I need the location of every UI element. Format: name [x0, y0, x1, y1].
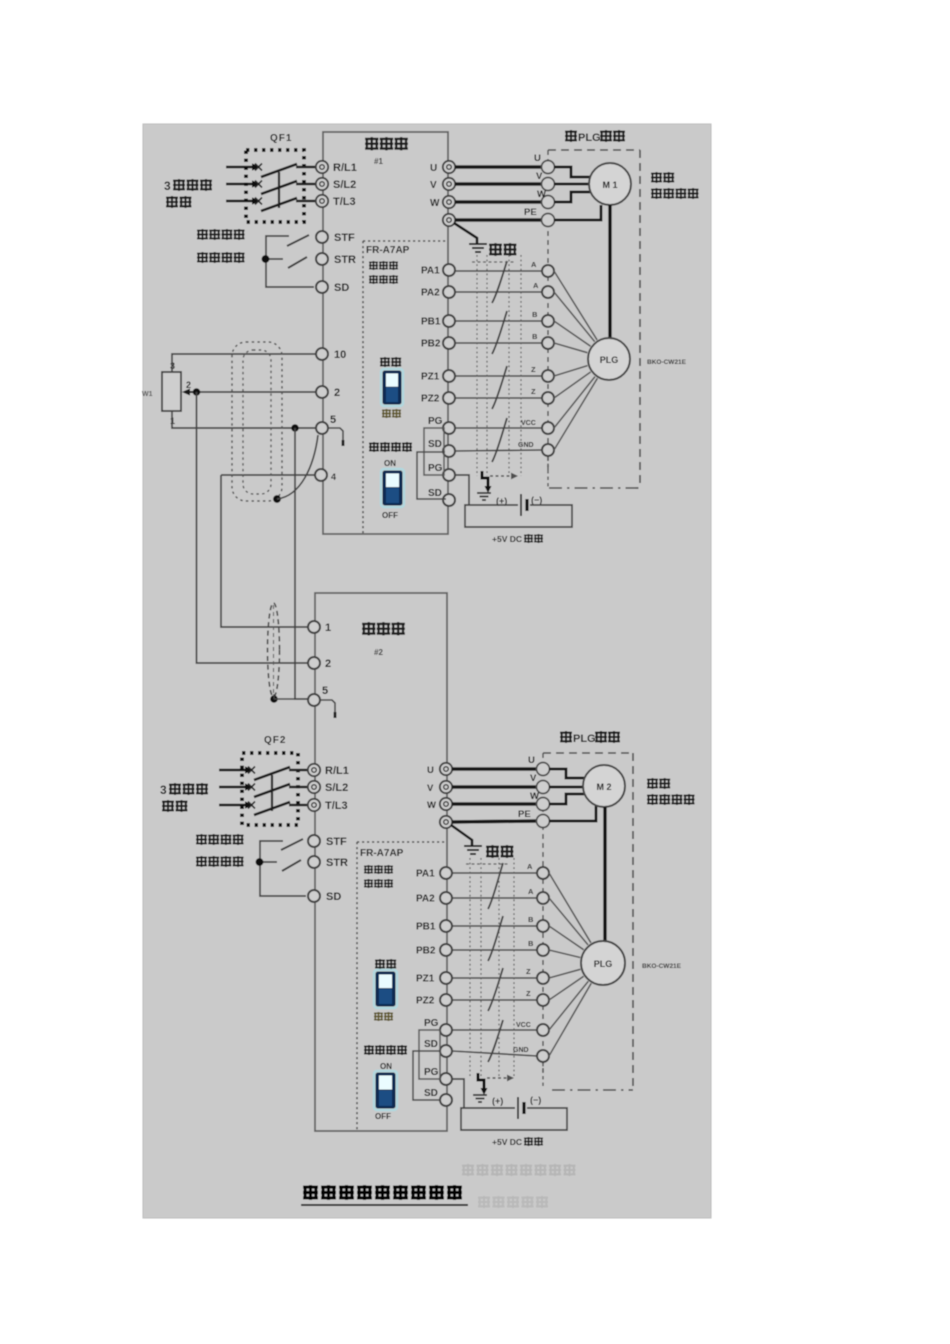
svg-text:PLG: PLG — [573, 733, 596, 745]
svg-text:FR-A7AP: FR-A7AP — [360, 848, 404, 859]
GND dashed drop (U2) — [542, 1063, 544, 1089]
card terminal PG y=475 (U1) — [428, 463, 455, 481]
QF1 phase 2 output stub — [296, 183, 316, 185]
svg-text:STF: STF — [334, 232, 355, 244]
label +5V DC电源 (U1) — [492, 534, 542, 544]
svg-text:PG: PG — [428, 416, 443, 427]
wire encoder 398 to PLG1 — [554, 372, 591, 398]
QF1 phase 3 breaker blade — [261, 198, 297, 211]
QF1 phase 2 input arrow — [226, 180, 260, 187]
wire encoder 873 to PLG2 — [549, 873, 591, 943]
svg-text:PZ2: PZ2 — [421, 394, 440, 405]
svg-text:M 2: M 2 — [596, 782, 611, 792]
svg-text:PB1: PB1 — [421, 317, 441, 328]
STF/STR/SD bracket wire (U2) — [260, 841, 306, 896]
thick wire U (U1) — [455, 165, 543, 169]
svg-text:PZ2: PZ2 — [416, 996, 435, 1007]
card terminal PB1 y=321 (U1) — [421, 315, 455, 328]
label 正转启动 (U2) — [197, 834, 243, 844]
encoder terminal GND y=450 (PLG1) — [518, 442, 554, 456]
svg-text:T/L3: T/L3 — [333, 196, 356, 208]
terminal 4 (U1) — [315, 469, 336, 482]
QF1 phase 1 breaker blade — [261, 164, 297, 177]
card terminal SD y=1100 (U2) — [424, 1088, 452, 1106]
QF2 phase 3 input arrow — [219, 801, 253, 808]
svg-text:2: 2 — [334, 387, 340, 399]
shield drain dot (upper capsule) — [273, 495, 281, 503]
svg-text:5: 5 — [322, 685, 328, 697]
terminal STR (U1) — [316, 253, 356, 266]
svg-text:R/L1: R/L1 — [325, 765, 349, 777]
QF2 phase 2 breaker blade — [254, 784, 290, 797]
svg-text:V: V — [530, 773, 537, 784]
DIP switch SW2 (U1) — [381, 469, 404, 507]
output terminal V (U2) — [427, 781, 452, 794]
label 上辊 (upper roll) — [648, 778, 670, 788]
svg-text:B: B — [528, 915, 534, 924]
svg-text:(+): (+) — [492, 1096, 503, 1106]
terminal 2 (U1) — [316, 386, 340, 399]
svg-text:PLG: PLG — [594, 959, 613, 969]
twisted pair slash y=321-343 (U1) — [492, 311, 507, 354]
thick wire PE (U2) — [452, 821, 537, 822]
svg-text:PG: PG — [424, 1067, 439, 1078]
svg-text:#2: #2 — [374, 648, 383, 657]
motor-encoder shaft link (U2) — [603, 807, 606, 941]
label OFF (U2) — [375, 1112, 391, 1121]
potentiometer RP1 pin labels — [142, 361, 191, 426]
label 终端电阻 (U2) — [365, 1045, 407, 1054]
shield drain dot (link capsule) — [270, 694, 295, 703]
svg-text:V: V — [430, 180, 437, 191]
GND dashed drop (U1) — [547, 457, 549, 487]
junction dot on terminal-5 wire — [291, 424, 299, 432]
potentiometer RP1 body — [162, 372, 181, 411]
label 接口卡 (interface card) U1 — [370, 275, 398, 283]
scanned diagram gray panel — [143, 124, 711, 1218]
label 互补 (below SW1) U2 — [375, 1012, 393, 1020]
svg-text:Z: Z — [531, 365, 536, 374]
card terminal SD y=451 (U1) — [428, 439, 455, 457]
battery minus label (U1) — [531, 495, 542, 505]
motor terminal PE (M1) — [524, 207, 555, 227]
svg-text:SD: SD — [424, 1039, 438, 1050]
svg-text:QF1: QF1 — [270, 133, 292, 144]
QF2 phase 2 contact cross — [248, 784, 255, 791]
motor stub V (M2) — [549, 786, 584, 789]
label 转矩控制 (torque control) — [648, 794, 694, 804]
motor terminal U (M1) — [534, 153, 555, 174]
3-phase source label 3相交流 (U2) — [160, 783, 207, 797]
wire row y=1000 (U2) — [452, 999, 537, 1001]
output terminal PE (U2) — [440, 816, 452, 828]
svg-text:GND: GND — [513, 1047, 529, 1054]
label OFF (U1) — [382, 511, 398, 520]
svg-text:PZ1: PZ1 — [421, 372, 440, 383]
wire encoder 271 to PLG1 — [554, 271, 597, 340]
battery minus label (U2) — [530, 1095, 541, 1105]
QF2 phase 2 output stub — [289, 786, 308, 788]
QF1 phase 2 breaker blade — [261, 181, 297, 194]
FR-A7AP label (U1) — [366, 245, 410, 256]
encoder terminal A y=292 (PLG1) — [533, 281, 554, 298]
encoder terminal VCC y=428 (PLG1) — [521, 420, 554, 434]
svg-text:T/L3: T/L3 — [325, 800, 348, 812]
PLG2 circle — [581, 941, 625, 985]
svg-text:QF2: QF2 — [264, 735, 286, 746]
ground symbol (U2) — [464, 846, 482, 854]
svg-text:S/L2: S/L2 — [325, 782, 348, 794]
svg-text:STR: STR — [334, 254, 356, 266]
svg-text:Z: Z — [526, 989, 531, 998]
PLG motor dashed box top (U1) — [548, 149, 640, 151]
svg-text:+5V DC: +5V DC — [492, 534, 522, 544]
card terminal PB2 y=343 (U1) — [421, 337, 455, 350]
svg-text:PA2: PA2 — [416, 894, 435, 905]
svg-text:PB2: PB2 — [421, 339, 441, 350]
encoder terminal Z y=398 (PLG1) — [531, 387, 554, 404]
terminal 5 (U2) — [308, 685, 328, 706]
card terminal PA1 y=270 (U1) — [421, 264, 455, 277]
label 带PLG电机 (U1) — [566, 130, 624, 144]
encoder terminal Z y=978 (PLG2) — [526, 967, 549, 984]
terminal STR (U2) — [308, 856, 348, 869]
wire row y=321 (U1) — [455, 320, 542, 322]
wire terminal5 junction down to U2 terminal 5 — [295, 428, 309, 699]
wire row y=451 (U1) — [455, 450, 542, 451]
wire encoder 321 to PLG1 — [554, 321, 591, 346]
label 编码器 (U2) — [365, 865, 393, 873]
QF1 phase 1 output stub — [296, 166, 316, 168]
FR-A7AP card dashed border (U2) — [357, 842, 446, 1130]
wire row y=898 (U2) — [452, 897, 537, 899]
svg-text:S/L2: S/L2 — [333, 179, 356, 191]
breaker QF1 dotted enclosure — [246, 150, 304, 222]
svg-text:10: 10 — [334, 349, 346, 361]
PLG motor dash-dot bottom (U2) — [552, 1089, 633, 1091]
DIP switch SW1 (U2) — [374, 970, 397, 1008]
svg-text:STR: STR — [326, 857, 348, 869]
wire PG to supply (U1) — [455, 475, 469, 505]
wire row y=873 (U2) — [452, 872, 537, 874]
card terminal PZ2 y=398 (U1) — [421, 392, 455, 405]
card terminal PZ1 y=376 (U1) — [421, 370, 455, 383]
card terminal SD y=1051 (U2) — [424, 1039, 452, 1057]
wire encoder 376 to PLG1 — [554, 366, 588, 376]
svg-text:4: 4 — [331, 472, 336, 482]
shield drain arrow (U2) — [478, 1073, 488, 1095]
wire row y=343 (U1) — [455, 342, 542, 344]
terminal S/L2 (U2) — [308, 781, 348, 794]
encoder terminal B y=950 (PLG2) — [528, 939, 549, 956]
battery plus label (U2) — [492, 1096, 503, 1106]
twisted pair slash y=978-1000 (U2) — [488, 968, 503, 1011]
svg-text:R/L1: R/L1 — [333, 162, 357, 174]
output terminal circle y=184 (U1) — [430, 178, 455, 191]
svg-text:PB1: PB1 — [416, 922, 436, 933]
label 终端电阻 (terminating resistor) U1 — [370, 442, 412, 451]
motor stub V (M1) — [554, 183, 589, 186]
wire terminal 4 to left — [221, 474, 315, 476]
svg-text:W: W — [530, 791, 539, 802]
motor wire PE (M2) — [549, 806, 596, 821]
wire row y=978 (U2) — [452, 977, 537, 979]
motor terminal U (M2) — [528, 755, 550, 776]
encoder model text (U2) — [642, 963, 682, 970]
svg-text:B: B — [532, 310, 538, 319]
svg-text:W: W — [430, 198, 440, 209]
encoder terminal A y=898 (PLG2) — [528, 887, 549, 904]
shield capsule inner conductor dashes — [0, 0, 1, 1]
twisted pair slash y=1030-1051 (U2) — [488, 1020, 503, 1062]
motor stub U (M2) — [549, 769, 585, 778]
svg-text:SD: SD — [326, 891, 341, 903]
card terminal PG y=1079 (U2) — [424, 1067, 452, 1085]
thick wire W (U2) — [452, 802, 537, 806]
breaker QF1 label — [270, 133, 292, 144]
motor terminal W (M1) — [537, 189, 555, 209]
inverter U1 (变频器 #1) enclosure box — [323, 132, 448, 534]
motor wire PE (M1) — [554, 205, 601, 220]
contact blade STR — [288, 257, 307, 268]
twisted pair slash y=428-451 (U1) — [492, 418, 507, 462]
svg-text:ON: ON — [384, 459, 396, 468]
svg-text:PLG: PLG — [600, 355, 619, 365]
QF2 mechanical tie bar — [271, 775, 273, 811]
QF1 mechanical tie bar — [278, 172, 280, 208]
potentiometer wiper arrow — [182, 389, 196, 396]
label 速度控制 (speed control) — [652, 188, 698, 198]
contact blade STF — [287, 235, 309, 246]
wire row y=271 (U1) — [455, 270, 542, 272]
wire row y=926 (U2) — [452, 925, 537, 927]
output terminal circle y=202 (U1) — [430, 196, 455, 209]
twisted pair slash y=271-292 (U1) — [492, 261, 507, 303]
svg-text:PLG: PLG — [578, 132, 601, 144]
shield dotted columns (U2) — [466, 858, 514, 1078]
label 差动 (switch 1) U2 — [376, 959, 396, 968]
label 接地 (U1) — [490, 243, 516, 255]
thick wire V (U2) — [452, 785, 537, 789]
STF/STR/SD bracket wire — [266, 236, 314, 287]
terminal SD (U1) — [316, 281, 349, 294]
QF2 phase 1 contact cross — [248, 767, 255, 774]
motor terminal V (M1) — [536, 171, 555, 191]
shield drain arrow (U1) — [482, 471, 492, 493]
thick wire PE (U1) — [455, 218, 543, 222]
label ON (U1) — [384, 459, 396, 468]
DIP switch SW2 (U2) — [374, 1071, 397, 1110]
QF1 phase 1 input arrow — [226, 163, 260, 170]
wire pot wiper to terminal 2 — [196, 391, 316, 393]
battery plus label (U1) — [496, 496, 507, 506]
wire row y=1051 (U2) — [452, 1051, 537, 1056]
card terminal PB2 y=950 (U2) — [416, 944, 452, 957]
FR-A7AP label (U2) — [360, 848, 404, 859]
motor stub W (M1) — [554, 192, 590, 202]
PG jumper rectangle (U2) — [419, 1030, 440, 1079]
wire row y=376 (U1) — [455, 375, 542, 377]
svg-text:OFF: OFF — [375, 1112, 391, 1121]
svg-text:STF: STF — [326, 836, 347, 848]
inverter U1 subtitle #1 — [374, 157, 383, 166]
terminal STF (U2) — [308, 835, 347, 848]
QF1 phase 3 output stub — [296, 200, 316, 202]
battery cell (U2) — [518, 1097, 524, 1119]
terminal 5 hook tail — [328, 428, 343, 446]
3-phase source label 3相交流 — [164, 179, 211, 193]
wire row y=428 (U1) — [455, 427, 542, 429]
label 反转启动 (reverse run) — [198, 252, 244, 262]
svg-text:PA2: PA2 — [421, 288, 440, 299]
5V supply box (U1) — [465, 505, 572, 527]
svg-text:PA1: PA1 — [416, 869, 435, 880]
svg-text:A: A — [533, 281, 539, 290]
terminal R/L1 (U2) — [308, 764, 349, 777]
wire row y=1030 (U2) — [452, 1029, 537, 1031]
QF2 phase 3 breaker blade — [254, 802, 290, 815]
svg-text:U: U — [534, 153, 541, 164]
terminal 2 (U2) — [308, 657, 331, 670]
wire encoder 450 to PLG1 — [554, 378, 597, 450]
encoder terminal VCC y=1030 (PLG2) — [516, 1022, 549, 1036]
svg-text:SD: SD — [334, 282, 349, 294]
wire encoder 343 to PLG1 — [554, 343, 587, 353]
svg-text:PA1: PA1 — [421, 266, 440, 277]
motor terminal V (M2) — [530, 773, 550, 794]
card terminal PA1 y=873 (U2) — [416, 867, 452, 880]
junction dot on STR wire — [262, 255, 270, 263]
PLG motor dashed box top (U2) — [543, 752, 633, 754]
shield dashed link arrow (U2) — [487, 1075, 514, 1082]
contact blade STF (U2) — [281, 839, 303, 850]
twisted pair slash y=376-398 (U1) — [492, 366, 507, 409]
output terminal W (U2) — [427, 798, 452, 811]
QF1 phase 2 contact cross — [255, 181, 262, 188]
wire encoder 428 to PLG1 — [554, 377, 595, 428]
QF2 phase 3 output stub — [289, 804, 308, 806]
terminal 10 (U1) — [316, 348, 346, 361]
svg-text:W1: W1 — [142, 391, 153, 398]
QF1 phase 3 input arrow — [226, 197, 260, 204]
svg-text:(−): (−) — [531, 495, 542, 505]
wire U1 terminal4 down to U2 terminal 1 — [221, 475, 309, 627]
svg-text:(−): (−) — [530, 1095, 541, 1105]
DIP switch SW1 (U1) — [381, 369, 403, 406]
wire encoder 950 to PLG2 — [549, 950, 580, 958]
svg-text:PE: PE — [518, 809, 531, 820]
svg-text:PE: PE — [524, 207, 537, 218]
caption 轧机变频器硬件接线图 — [301, 1185, 468, 1205]
card terminal PA2 y=292 (U1) — [421, 286, 455, 299]
svg-text:OFF: OFF — [382, 511, 398, 520]
wire encoder 926 to PLG2 — [549, 926, 584, 950]
shield capsule of link cable — [268, 603, 280, 697]
junction dot pot wiper — [193, 388, 201, 396]
svg-text:V: V — [427, 783, 434, 794]
wire encoder 898 to PLG2 — [549, 898, 588, 945]
svg-text:BKO-CW21E: BKO-CW21E — [642, 963, 682, 970]
card terminal PB1 y=926 (U2) — [416, 920, 452, 933]
QF2 phase 3 contact cross — [248, 802, 255, 809]
svg-text:Z: Z — [526, 967, 531, 976]
faint bleed-through marks — [463, 1164, 575, 1207]
wire encoder 1056 to PLG2 — [549, 983, 591, 1056]
svg-text:3: 3 — [160, 783, 167, 797]
svg-text:PG: PG — [428, 463, 443, 474]
SD jumper bracket (U1) — [417, 452, 446, 499]
svg-text:GND: GND — [518, 442, 534, 449]
motor stub W (M2) — [549, 794, 585, 804]
card terminal PG y=428 (U1) — [428, 416, 455, 434]
QF1 phase 1 contact cross — [255, 164, 262, 171]
output terminal U (U2) — [427, 763, 452, 776]
inverter U2 (变频器 #2) enclosure box — [315, 593, 447, 1131]
encoder terminal A y=873 (PLG2) — [527, 862, 549, 879]
svg-text:1: 1 — [325, 622, 331, 634]
PLG motor dashed box right (U1) — [639, 150, 641, 487]
svg-text:U: U — [430, 163, 437, 174]
terminal T/L3 (U2) — [308, 799, 348, 812]
ground wire from PE (U1) — [454, 223, 477, 243]
svg-text:A: A — [528, 887, 534, 896]
PLG motor dashed box left (U2) — [542, 753, 544, 1072]
svg-text:Z: Z — [531, 387, 536, 396]
terminal STF (U1) — [316, 231, 355, 244]
encoder terminal Z y=1000 (PLG2) — [526, 989, 549, 1006]
terminal 1 (U2) — [308, 621, 331, 634]
encoder terminal B y=926 (PLG2) — [528, 915, 549, 932]
motor terminal PE (M2) — [518, 809, 550, 828]
encoder terminal GND y=1056 (PLG2) — [513, 1047, 549, 1062]
motor stub U (M1) — [554, 167, 590, 177]
svg-text:PB2: PB2 — [416, 946, 436, 957]
wire row y=398 (U1) — [455, 397, 542, 399]
drain ground symbol (U2) — [473, 1095, 487, 1102]
twisted pair slash y=926-950 (U2) — [488, 916, 503, 961]
svg-text:2: 2 — [325, 658, 331, 670]
label 接地 (U2) — [487, 845, 513, 857]
svg-text:PZ1: PZ1 — [416, 974, 435, 985]
ground wire from PE (U2) — [451, 825, 472, 845]
twisted pair slash y=873-898 (U2) — [488, 863, 503, 909]
card terminal SD y=500 (U1) — [428, 488, 455, 506]
svg-text:W: W — [427, 800, 436, 811]
label 正转启动 (forward run) — [198, 229, 244, 239]
svg-text:VCC: VCC — [516, 1022, 531, 1029]
svg-text:V: V — [536, 171, 543, 182]
encoder terminal A y=271 (PLG1) — [531, 260, 554, 277]
wire encoder 978 to PLG2 — [549, 969, 580, 978]
link capsule inner dashes — [273, 605, 275, 695]
encoder terminal B y=321 (PLG1) — [532, 310, 554, 327]
terminal S/L2 (U1) — [316, 178, 356, 191]
SD jumper bracket (U2) — [413, 1051, 441, 1100]
ground symbol (U1) — [469, 244, 487, 252]
3-phase source label 电源 — [167, 196, 191, 207]
terminal 5 (U1) — [316, 414, 336, 434]
PLG motor dashed box right (U2) — [632, 753, 634, 1089]
QF2 phase 1 output stub — [289, 769, 308, 771]
label 差动 (switch 1) U1 — [381, 357, 401, 366]
label ON (U2) — [380, 1062, 392, 1071]
encoder model text (U1) — [647, 359, 687, 366]
shield dashed link arrow (U1) — [490, 473, 518, 480]
inverter U1 title 变频器 — [366, 137, 407, 150]
QF2 phase 1 input arrow — [219, 766, 253, 773]
svg-text:FR-A7AP: FR-A7AP — [366, 245, 410, 256]
encoder terminal Z y=376 (PLG1) — [531, 365, 554, 382]
